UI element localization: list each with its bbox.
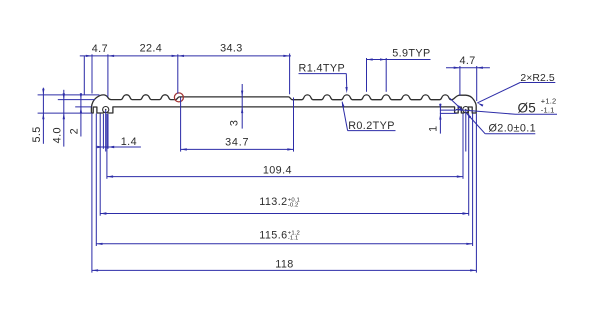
svg-text:R0.2TYP: R0.2TYP: [348, 120, 395, 132]
svg-text:R1.4TYP: R1.4TYP: [299, 62, 346, 74]
dimension 4.7 right: [446, 67, 490, 69]
leader diameter 5 +1.2/-1.1: [456, 110, 516, 115]
hole centerline left: [105, 110, 107, 152]
left horizontal extension lines: [38, 94, 100, 96]
pointer into boss hole: [450, 98, 463, 110]
svg-text:22.4: 22.4: [140, 43, 163, 55]
svg-text:+1.2: +1.2: [541, 97, 557, 106]
dimension 113.2 +0.1/-0.2: [100, 213, 469, 215]
dimension 1 (right): [439, 104, 441, 134]
dimension 2: [80, 93, 82, 136]
dimension 115.6 +1.2/-1.1: [96, 243, 472, 245]
aluminum profile cross-section outline: [91, 95, 476, 113]
svg-text:1.4: 1.4: [121, 136, 137, 148]
hole centerline right: [465, 110, 467, 152]
dimension 118: [92, 269, 477, 271]
svg-text:109.4: 109.4: [263, 164, 292, 176]
svg-text:34.3: 34.3: [220, 43, 243, 55]
svg-text:113.2: 113.2: [259, 196, 287, 208]
dimension 1.4 (slot): [97, 146, 141, 148]
svg-text:34.7: 34.7: [225, 137, 249, 149]
svg-text:118: 118: [275, 259, 293, 271]
svg-text:4.0: 4.0: [52, 127, 64, 143]
dimension 5.9TYP: [367, 59, 431, 61]
svg-text:115.6: 115.6: [259, 230, 287, 242]
dimension 3 (plate thickness): [241, 84, 243, 129]
extension lines top-left: [83, 56, 85, 95]
leader diameter 2.0 +-0.1: [466, 113, 485, 134]
screw hole right (Ø2.0): [463, 107, 469, 113]
top dimension line 4.7 / 22.4 / 34.3: [80, 55, 291, 57]
leader R0.2TYP: [342, 102, 347, 130]
leader R1.4TYP: [299, 73, 347, 75]
svg-text:2×R2.5: 2×R2.5: [520, 73, 555, 84]
svg-text:4.7: 4.7: [459, 55, 475, 67]
dimension 4.0: [63, 90, 65, 147]
svg-text:2: 2: [68, 128, 80, 134]
screw hole left (Ø2.0): [103, 107, 109, 113]
svg-text:-0.2: -0.2: [288, 203, 299, 209]
svg-text:5.5: 5.5: [31, 126, 43, 142]
dimension 109.4: [107, 176, 463, 178]
svg-text:5.9TYP: 5.9TYP: [392, 47, 430, 59]
leader 2xR2.5: [477, 83, 520, 103]
svg-text:-1.1: -1.1: [541, 106, 555, 115]
dimension 5.5: [42, 88, 44, 144]
svg-text:1: 1: [427, 125, 439, 131]
red highlight circle at step: [174, 93, 183, 102]
svg-text:Ø2.0±0.1: Ø2.0±0.1: [489, 123, 537, 135]
svg-text:3: 3: [228, 120, 240, 126]
svg-text:Ø5: Ø5: [518, 101, 537, 116]
svg-text:4.7: 4.7: [92, 43, 108, 55]
dimension 34.7: [181, 148, 294, 150]
svg-text:-1.1: -1.1: [288, 236, 299, 242]
